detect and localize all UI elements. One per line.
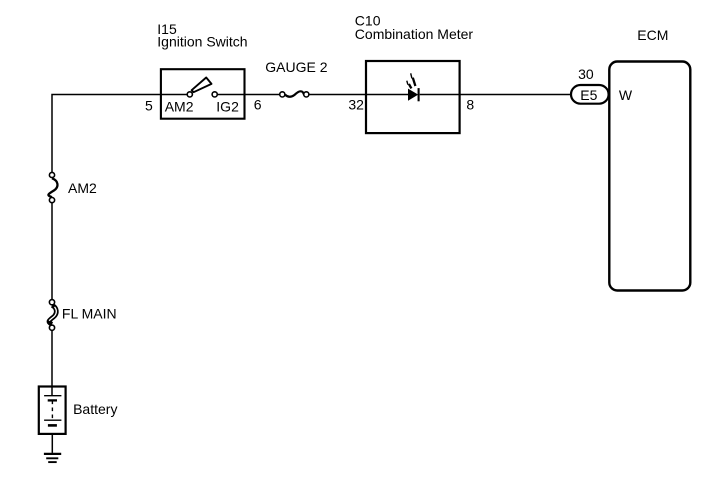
- label Ignition Switch: [157, 34, 247, 50]
- battery: [39, 387, 66, 434]
- label C10: [355, 13, 381, 29]
- svg-text:ECM: ECM: [637, 27, 668, 43]
- wire from combination meter pin 8 to ECM connector E5: [420, 94, 572, 96]
- svg-text:IG2: IG2: [216, 98, 239, 114]
- combination meter C10 box: [366, 61, 460, 133]
- svg-text:32: 32: [348, 96, 364, 112]
- svg-text:W: W: [619, 87, 633, 103]
- svg-text:5: 5: [145, 98, 153, 114]
- pin 32 (combination meter): [348, 96, 364, 112]
- svg-text:E5: E5: [580, 87, 597, 103]
- wire from ignition switch IG2 to fuse GAUGE 2: [217, 94, 280, 96]
- svg-text:GAUGE 2: GAUGE 2: [265, 59, 327, 75]
- pin 5 (ignition switch): [145, 98, 153, 114]
- fusible link FL MAIN (double wavy): [49, 300, 56, 331]
- pin 30 (ECM): [578, 66, 594, 82]
- svg-text:6: 6: [254, 96, 262, 112]
- label AM2 (fuse): [68, 180, 97, 196]
- connector E5 oval: [571, 85, 609, 104]
- terminal circle IG2 (ignition switch): [212, 92, 217, 97]
- pin 6 (ignition switch): [254, 96, 262, 112]
- svg-text:Combination Meter: Combination Meter: [355, 26, 474, 42]
- terminal circle AM2 (ignition switch): [187, 92, 192, 97]
- label I15: [157, 21, 177, 37]
- svg-text:Ignition Switch: Ignition Switch: [157, 34, 247, 50]
- ignition switch I15 box: [161, 69, 245, 119]
- ground: [44, 454, 61, 462]
- switch lever (ignition switch movable contact): [192, 78, 212, 93]
- label AM2 (switch terminal): [165, 98, 194, 114]
- wire from battery negative to ground: [51, 434, 53, 453]
- label Battery: [73, 401, 117, 417]
- svg-text:AM2: AM2: [165, 98, 194, 114]
- label FL MAIN (fusible link): [62, 306, 117, 322]
- svg-text:Battery: Battery: [73, 401, 117, 417]
- svg-text:8: 8: [466, 96, 474, 112]
- wire from FL MAIN to battery positive plate: [51, 331, 53, 396]
- wire from fuse AM2 to fusible link FL MAIN: [51, 203, 53, 300]
- svg-text:30: 30: [578, 66, 594, 82]
- wire from fuse GAUGE 2 to combination meter pin 32: [308, 94, 408, 96]
- pin 8 (combination meter): [466, 96, 474, 112]
- ECM box: [609, 62, 690, 291]
- label Combination Meter: [355, 26, 474, 42]
- label GAUGE 2: [265, 59, 327, 75]
- fuse GAUGE 2: [280, 91, 309, 97]
- LED indicator (combination meter lamp): [407, 73, 419, 101]
- fuse AM2: [48, 172, 57, 202]
- label ECM: [637, 27, 668, 43]
- wire color label W: [619, 87, 633, 103]
- wire from battery branch corner to ignition switch pin 5 (vertical drop + horizontal run): [52, 95, 188, 173]
- svg-text:AM2: AM2: [68, 180, 97, 196]
- label IG2 (switch terminal): [216, 98, 239, 114]
- svg-text:FL MAIN: FL MAIN: [62, 306, 117, 322]
